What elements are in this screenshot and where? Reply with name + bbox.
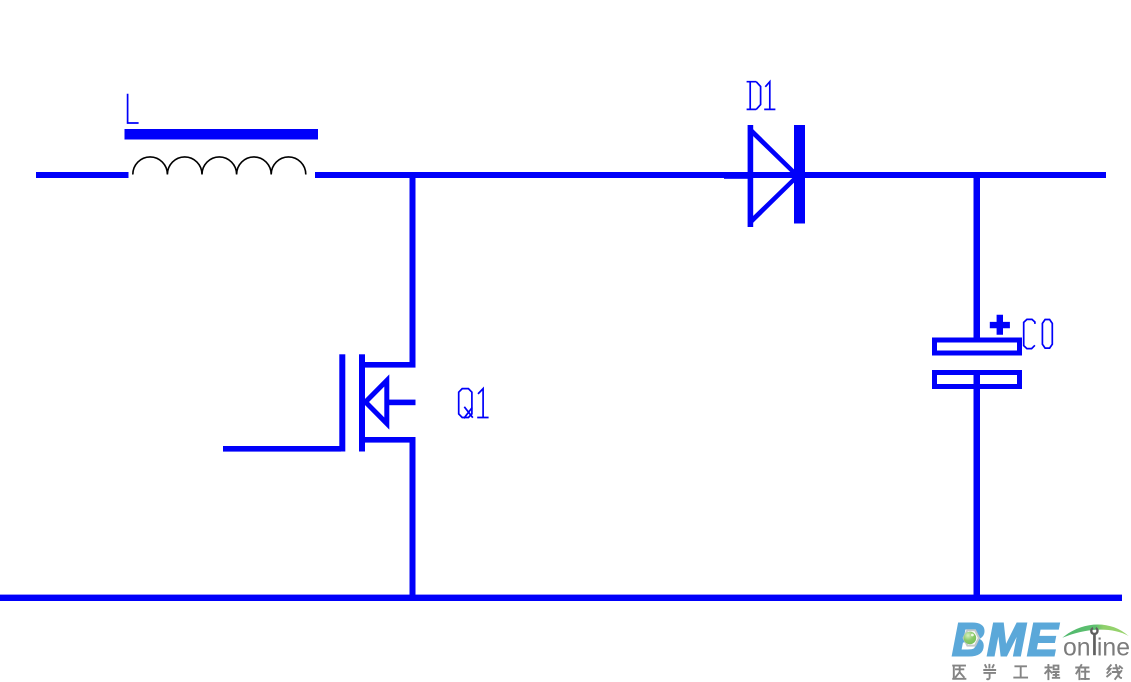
char 医 xyxy=(953,666,965,679)
char 线 xyxy=(1107,665,1122,679)
MOSFET Q1 gate lead wire xyxy=(223,446,341,452)
label Q1 xyxy=(459,389,489,419)
wire: bottom rail (ground return) xyxy=(0,595,1122,601)
MOSFET Q1 gate bar xyxy=(339,354,345,451)
inductor L top bar xyxy=(125,129,319,140)
logo hex nut with green ball xyxy=(964,630,979,645)
wire: top rail from inductor to right end xyxy=(315,172,1106,178)
char 学 xyxy=(984,665,995,679)
wire: drain vertical from top rail xyxy=(410,172,416,367)
logo green swoosh xyxy=(1062,625,1128,638)
MOSFET Q1 source horizontal xyxy=(359,437,416,443)
svg-text:on: on xyxy=(1063,634,1091,661)
logo wrench icon (letter l) xyxy=(1090,627,1099,655)
label D1 xyxy=(747,82,776,110)
char 程 xyxy=(1045,665,1059,679)
wire: capacitor top vertical xyxy=(974,172,981,340)
wire: source vertical to bottom rail xyxy=(410,437,416,597)
MOSFET Q1 channel bar xyxy=(359,354,365,451)
wire: top rail left segment xyxy=(36,172,129,178)
char 工 xyxy=(1014,666,1027,677)
MOSFET Q1 body arrow xyxy=(366,381,387,424)
capacitor C0 bottom plate xyxy=(935,373,1020,387)
svg-text:ine: ine xyxy=(1097,634,1130,661)
label L xyxy=(128,94,139,123)
diode D1 triangle (anode) xyxy=(748,125,801,227)
diode D1 cathode bar xyxy=(794,125,805,224)
inductor L coil windings xyxy=(133,157,306,175)
label C0 xyxy=(1024,319,1053,348)
capacitor C0 plus polarity mark xyxy=(990,315,1010,335)
MOSFET Q1 body/source tail xyxy=(385,400,416,406)
wire: capacitor bottom vertical to rail xyxy=(974,372,981,600)
logo Chinese tagline 医学工程在线 xyxy=(953,665,1122,679)
MOSFET Q1 drain horizontal xyxy=(359,362,416,368)
wire: thin stub at diode anode xyxy=(724,177,748,179)
capacitor C0 top plate xyxy=(935,340,1020,353)
char 在 xyxy=(1076,665,1089,679)
